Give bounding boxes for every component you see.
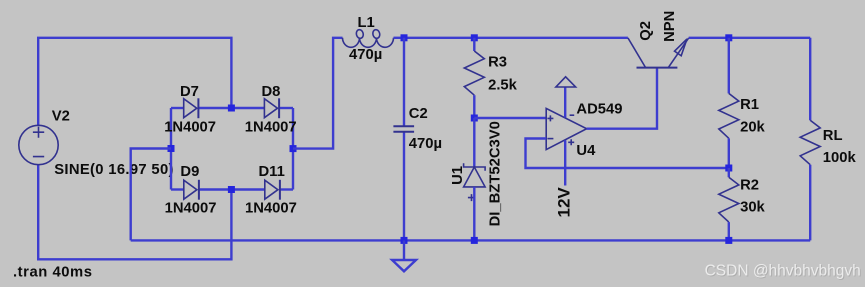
capacitor C2 (393, 126, 414, 132)
svg-text:C2: C2 (409, 106, 428, 122)
wire op-amp output to base (587, 68, 657, 129)
wire D7 anode (171, 107, 184, 109)
wire op-amp V- pin (564, 87, 566, 118)
inductor L1 (343, 29, 394, 47)
node bridge left DC- junction (168, 145, 175, 152)
svg-text:.tran 40ms: .tran 40ms (13, 265, 93, 281)
svg-text:U4: U4 (576, 143, 596, 159)
bottom ground rail (131, 239, 811, 241)
svg-text:470µ: 470µ (409, 136, 442, 152)
svg-text:L1: L1 (358, 15, 375, 31)
diode D8 (264, 98, 279, 118)
node bridge top AC junction (228, 105, 235, 112)
node zener ground junction (471, 237, 478, 244)
wire R1 bottom to node (728, 138, 730, 168)
svg-text:D7: D7 (180, 84, 199, 100)
svg-text:V2: V2 (52, 109, 70, 125)
ground symbol (392, 260, 416, 271)
wire emitter to RL (689, 37, 811, 39)
wire bridge left to ground riser (131, 149, 171, 241)
wire bridge right to L1 riser (293, 38, 343, 149)
node C2 ground junction (401, 237, 408, 244)
wire V2 top feed to bridge (38, 38, 231, 126)
node R2 ground junction (725, 237, 732, 244)
resistor RL (800, 120, 820, 165)
svg-text:RL: RL (823, 128, 843, 144)
node divider junction (725, 165, 732, 172)
voltage source V2 (19, 125, 58, 164)
power flag op-amp V- (556, 77, 576, 87)
wire D8 anode (231, 107, 264, 109)
wire to op-amp noninverting input (474, 117, 546, 119)
wire D8 cathode (279, 107, 293, 109)
svg-text:1N4007: 1N4007 (165, 200, 217, 216)
svg-text:D9: D9 (180, 164, 199, 180)
svg-text:D8: D8 (262, 84, 281, 100)
svg-text:100k: 100k (823, 150, 857, 166)
svg-text:NPN: NPN (662, 11, 678, 42)
wire V2 bottom return to bridge (38, 165, 231, 260)
svg-text:SINE(0 16.97 50): SINE(0 16.97 50) (54, 162, 174, 178)
wire R2 top (728, 168, 730, 177)
wire L1 right to rail (394, 37, 405, 39)
diode D9 (184, 180, 199, 200)
resistor R2 (719, 177, 739, 222)
op-amp U4 (546, 108, 586, 149)
resistor R1 (719, 93, 739, 138)
node R1 top junction (725, 34, 732, 41)
node bridge bottom AC junction (228, 186, 235, 193)
svg-text:AD549: AD549 (576, 102, 622, 118)
svg-text:470µ: 470µ (349, 47, 382, 63)
wire D7 cathode to node (198, 107, 231, 109)
wire D11 anode (231, 188, 265, 190)
transistor Q2 (628, 38, 689, 68)
wire zener anode to ground rail (473, 187, 475, 241)
bridge left vertical wire (170, 108, 172, 190)
resistor R3 (464, 51, 484, 95)
wire feedback from divider (526, 139, 729, 169)
wire C2 bottom (403, 132, 405, 241)
svg-text:30k: 30k (740, 200, 765, 216)
wire op-amp V+ pin to 12V (564, 140, 566, 185)
svg-text:1N4007: 1N4007 (164, 119, 216, 135)
svg-text:1N4007: 1N4007 (245, 200, 297, 216)
svg-text:R1: R1 (740, 97, 759, 113)
wire D9 anode (171, 188, 184, 190)
zener diode U1 (464, 163, 486, 201)
node R3 zener junction (471, 115, 478, 122)
svg-text:20k: 20k (740, 120, 765, 136)
wire RL top riser (809, 38, 811, 120)
wire R3 bottom (473, 95, 475, 118)
wire R2 bottom (728, 222, 730, 240)
svg-text:R2: R2 (740, 178, 759, 194)
wire RL bottom (809, 165, 811, 241)
wire D11 cathode (280, 188, 293, 190)
node R3 top junction (471, 34, 478, 41)
svg-text:Q2: Q2 (638, 21, 654, 41)
svg-text:U1: U1 (450, 166, 466, 185)
svg-text:CSDN @hhvbhvbhgvh: CSDN @hhvbhvbhgvh (705, 263, 861, 280)
wire C2 top (403, 38, 405, 126)
svg-text:2.5k: 2.5k (488, 78, 518, 94)
svg-text:1N4007: 1N4007 (245, 119, 297, 135)
svg-text:R3: R3 (488, 55, 507, 71)
wire R3 top (473, 38, 475, 51)
diode D11 (265, 180, 280, 200)
svg-text:DI_BZT52C3V0: DI_BZT52C3V0 (488, 121, 504, 226)
svg-text:D11: D11 (259, 164, 285, 180)
wire zener cathode (473, 118, 475, 167)
node L1 output junction (401, 34, 408, 41)
node bridge right DC+ junction (290, 145, 297, 152)
bridge right vertical wire (292, 108, 294, 190)
wire top rail to collector (404, 37, 628, 39)
wire D9 cathode (199, 188, 232, 190)
wire R1 top (728, 38, 730, 94)
diode D7 (184, 98, 199, 118)
svg-text:12V: 12V (554, 187, 573, 218)
wire ground stub (403, 240, 405, 260)
